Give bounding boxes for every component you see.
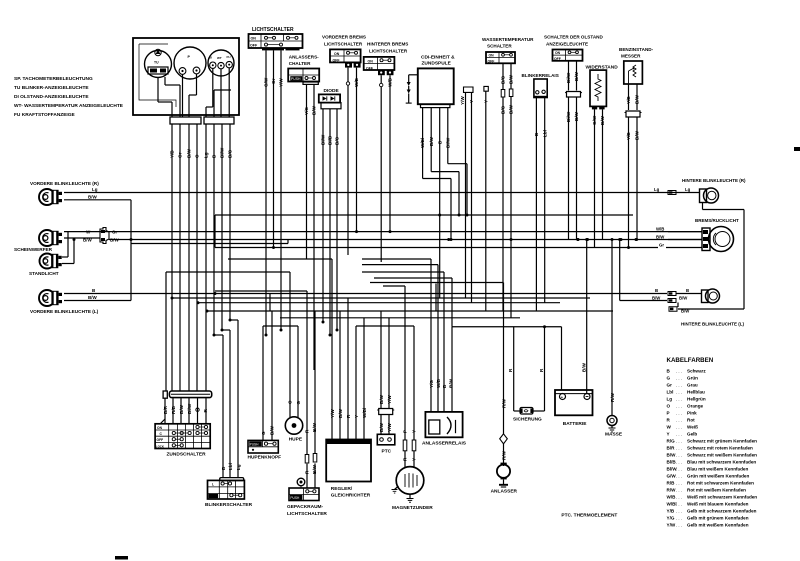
svg-text:B/W: B/W [635, 94, 640, 104]
wire drops from instrument cluster [172, 124, 238, 478]
svg-text:PTC. THERMOELEMENT: PTC. THERMOELEMENT [561, 513, 617, 519]
svg-text:Lg: Lg [204, 152, 209, 158]
svg-text:KABELFARBEN: KABELFARBEN [667, 357, 714, 364]
wire W/B from hinterer Bremslichtschalter [388, 75, 393, 233]
battery BATTERIE [555, 240, 593, 428]
svg-text:B/G: B/G [501, 75, 506, 84]
svg-text:B: B [686, 288, 689, 293]
svg-text:ON: ON [368, 60, 374, 64]
thermo element PTC [377, 311, 395, 455]
svg-text:Rot: Rot [687, 418, 695, 423]
svg-text:BATTERIE: BATTERIE [563, 421, 587, 427]
svg-text:OFF: OFF [554, 57, 561, 61]
svg-text:Bl/B: Bl/B [328, 135, 333, 145]
svg-text:B/W: B/W [656, 234, 665, 239]
switch WASSERTEMPERATUR SCHALTER [482, 37, 534, 63]
svg-text:O: O [195, 154, 200, 158]
svg-text:Weiß: Weiß [687, 425, 698, 430]
svg-text:Weiß mit blauem Kennfaden: Weiß mit blauem Kennfaden [687, 502, 749, 507]
svg-text:Y/G: Y/G [667, 516, 675, 521]
spark plug lead and gap [406, 75, 418, 103]
svg-text:VORDERER BREMS: VORDERER BREMS [322, 35, 366, 40]
headlamp connector W/Gr [83, 228, 120, 244]
wire B/W front left blinker [64, 295, 131, 301]
svg-text:. . .: . . . [676, 523, 682, 528]
svg-text:G/W: G/W [592, 115, 597, 125]
wire Gr from Lichtschalter [271, 50, 276, 249]
svg-text:Lbl: Lbl [667, 390, 674, 395]
svg-text:Y/B: Y/B [626, 132, 631, 140]
svg-text:. . .: . . . [676, 390, 682, 395]
svg-text:LICHTSCHALTER: LICHTSCHALTER [287, 511, 327, 517]
svg-text:Hellblau: Hellblau [687, 390, 705, 395]
svg-text:SCHALTER DER OLSTAND: SCHALTER DER OLSTAND [544, 35, 603, 40]
svg-text:B/W: B/W [312, 464, 317, 474]
svg-text:BLINKERRELAIS: BLINKERRELAIS [522, 73, 559, 78]
svg-text:G/W: G/W [264, 77, 269, 87]
svg-text:R/B: R/B [667, 481, 676, 486]
svg-text:TU BLINKER-ANZEIGELEUCHTE: TU BLINKER-ANZEIGELEUCHTE [14, 85, 89, 91]
wire Y with plug [484, 86, 489, 311]
svg-text:B/W: B/W [88, 195, 98, 200]
svg-text:SCHEINWERFER: SCHEINWERFER [14, 247, 53, 252]
svg-text:. . .: . . . [676, 418, 682, 423]
svg-text:PUSH: PUSH [291, 77, 301, 81]
wire mesh vertical runs [166, 164, 562, 411]
svg-text:Orange: Orange [687, 404, 704, 409]
svg-text:LICHTSCHALTER: LICHTSCHALTER [369, 49, 408, 54]
wires B/G and B/W from Wassertemperaturschalter [501, 63, 514, 317]
svg-text:Hellgrün: Hellgrün [687, 397, 706, 402]
svg-text:W/B: W/B [667, 495, 677, 500]
svg-text:CHALTER: CHALTER [289, 61, 311, 66]
svg-text:B/W: B/W [574, 111, 579, 121]
switch VORDERER BREMSLICHTSCHALTER [322, 35, 366, 68]
svg-text:LICHTSCHALTER: LICHTSCHALTER [324, 42, 363, 47]
lamp SCHEINWERFER [14, 230, 62, 252]
wire Y/G from Anlasserschalter [304, 84, 309, 259]
wires G/W B/W from Widerstand [592, 109, 605, 247]
svg-text:Schwarz: Schwarz [687, 369, 706, 374]
svg-text:. . .: . . . [676, 481, 682, 486]
svg-text:DI: DI [209, 56, 212, 60]
switch HINTERER BREMSLICHTSCHALTER [364, 42, 409, 76]
svg-text:B/W: B/W [582, 362, 587, 372]
wire labels above ignition switch [160, 398, 208, 424]
wires from diode [321, 109, 340, 335]
svg-text:ZUNDSPULE: ZUNDSPULE [422, 61, 452, 67]
svg-text:B/W: B/W [429, 136, 434, 146]
fuel gauge sender BENZINSTANDMESSER [619, 47, 654, 84]
svg-text:Rot mit weißem Kennfaden: Rot mit weißem Kennfaden [687, 488, 746, 493]
svg-text:Blau mit weißem Kennfaden: Blau mit weißem Kennfaden [687, 467, 748, 472]
svg-text:. . .: . . . [676, 376, 682, 381]
svg-text:B/G: B/G [228, 149, 233, 158]
ground at magnetzunder left [392, 486, 399, 493]
svg-text:MAGNETZUNDER: MAGNETZUNDER [392, 505, 433, 511]
svg-text:BLINKERSCHALTER: BLINKERSCHALTER [205, 502, 253, 508]
svg-text:PUSH: PUSH [250, 442, 260, 446]
svg-text:OFF: OFF [366, 67, 374, 71]
switch GEPACKRAUM-LICHTSCHALTER [287, 291, 327, 517]
wire B/W bus [109, 238, 702, 241]
svg-text:Gelb: Gelb [687, 432, 697, 437]
horn HUPE [285, 272, 303, 443]
svg-text:. . .: . . . [676, 460, 682, 465]
svg-text:+: + [561, 395, 563, 399]
svg-text:B/G: B/G [335, 136, 340, 145]
svg-text:Bl/W: Bl/W [220, 147, 225, 158]
wire Lg to front right blinker [64, 187, 700, 193]
svg-text:Pink: Pink [687, 411, 697, 416]
svg-text:MESSER: MESSER [621, 54, 641, 59]
wire labels below cluster [170, 147, 233, 158]
ground MASSE [605, 240, 623, 438]
svg-text:GEPACKRAUM-: GEPACKRAUM- [287, 504, 324, 510]
svg-text:ON: ON [489, 54, 495, 58]
wire B rear left [270, 288, 702, 296]
svg-text:. . .: . . . [676, 397, 682, 402]
generator MAGNETZUNDER [392, 286, 433, 511]
svg-text:BREMS/RUCKLICHT: BREMS/RUCKLICHT [695, 218, 739, 223]
relay BLINKERRELAIS [522, 73, 559, 98]
lamp VORDERE BLINKLEUCHTE (R) [30, 181, 99, 205]
switch LICHTSCHALTER [249, 27, 303, 50]
svg-text:ZUNDSCHALTER: ZUNDSCHALTER [167, 452, 207, 458]
svg-text:O: O [667, 404, 671, 409]
svg-text:DIODE: DIODE [324, 88, 340, 94]
svg-text:P: P [667, 411, 670, 416]
svg-text:SCHALTER: SCHALTER [487, 44, 512, 49]
svg-text:. . .: . . . [676, 467, 682, 472]
svg-text:ON: ON [334, 52, 340, 56]
svg-text:HINTERE BLINKLEUCHTE (R): HINTERE BLINKLEUCHTE (R) [682, 178, 746, 183]
svg-text:Y/G: Y/G [304, 107, 309, 115]
svg-text:Grün: Grün [687, 376, 698, 381]
svg-text:FU KRAFTSTOFFANZEIGE: FU KRAFTSTOFFANZEIGE [14, 112, 75, 118]
switch table ZUNDSCHALTER [155, 424, 210, 458]
wire G/W from Lichtschalter [264, 50, 269, 335]
svg-text:Y/W: Y/W [460, 96, 465, 105]
svg-text:Bl/W: Bl/W [445, 137, 450, 148]
svg-text:B/W: B/W [681, 309, 690, 314]
svg-text:B/W: B/W [509, 104, 514, 114]
svg-text:B/W: B/W [652, 295, 661, 300]
svg-text:B/W: B/W [635, 130, 640, 140]
svg-text:Gr: Gr [667, 383, 673, 388]
legend text SP/TU/DI/WT/FU [14, 76, 124, 118]
diode block DIODE [319, 88, 341, 109]
svg-text:. . .: . . . [676, 383, 682, 388]
svg-text:B: B [655, 288, 658, 293]
svg-text:ON: ON [251, 37, 257, 41]
svg-text:Lg: Lg [92, 187, 98, 192]
CDI unit CDI-EINHEIT & ZUNDSPULE [418, 55, 455, 108]
svg-text:LICHTSCHALTER: LICHTSCHALTER [252, 27, 294, 33]
svg-text:Bl/W: Bl/W [566, 72, 571, 83]
svg-text:Y/B: Y/B [170, 150, 175, 158]
svg-text:ANLASSERS-: ANLASSERS- [289, 55, 319, 60]
svg-text:. . .: . . . [676, 474, 682, 479]
svg-text:ANZEIGELEUCHTE: ANZEIGELEUCHTE [546, 42, 588, 47]
svg-text:Schwarz mit grünem Kennfaden: Schwarz mit grünem Kennfaden [687, 439, 757, 444]
legend KABELFARBEN [667, 357, 758, 528]
svg-text:Y/B: Y/B [667, 509, 675, 514]
svg-text:R/G: R/G [667, 439, 676, 444]
svg-text:Y/B: Y/B [626, 96, 631, 104]
svg-text:BENZINSTAND-: BENZINSTAND- [619, 47, 654, 52]
lamp VORDERE BLINKLEUCHTE (L) [30, 290, 99, 314]
svg-text:Y/W: Y/W [667, 523, 676, 528]
svg-text:Grau: Grau [687, 383, 698, 388]
svg-text:. . .: . . . [676, 509, 682, 514]
svg-text:. . .: . . . [676, 446, 682, 451]
svg-text:W/Bl: W/Bl [420, 138, 425, 148]
lamp HINTERE BLINKLEUCHTE (L) [681, 289, 744, 327]
svg-text:Lbl: Lbl [542, 130, 547, 137]
svg-text:STANDLICHT: STANDLICHT [29, 271, 59, 276]
gauge unit DI / WT / FU [208, 50, 234, 76]
svg-text:G: G [667, 376, 671, 381]
svg-text:HINTERE BLINKLEUCHTE (L): HINTERE BLINKLEUCHTE (L) [681, 322, 744, 327]
ignition switch connector bar [163, 391, 212, 398]
svg-text:W/B: W/B [354, 77, 359, 87]
svg-text:W/B: W/B [656, 226, 664, 231]
svg-text:B/W: B/W [509, 74, 514, 84]
svg-text:OFF: OFF [157, 438, 164, 442]
svg-text:B/W: B/W [574, 71, 579, 81]
svg-text:B/W: B/W [679, 295, 688, 300]
svg-text:Lg: Lg [654, 187, 660, 192]
svg-text:B/W: B/W [312, 105, 317, 115]
cluster connector (right) [204, 117, 234, 124]
svg-text:ON: ON [157, 426, 163, 430]
resistor WIDERSTAND [586, 65, 619, 110]
svg-text:OFF: OFF [250, 44, 258, 48]
cluster connector (left) [170, 117, 201, 124]
instrument cluster (Tacho-Einheit) [133, 38, 239, 115]
svg-text:. . .: . . . [676, 404, 682, 409]
relay ANLASSERRELAIS [422, 259, 467, 446]
wire B front left blinker [64, 288, 270, 295]
svg-text:SICHERUNG: SICHERUNG [513, 417, 542, 423]
svg-text:Y: Y [667, 432, 670, 437]
svg-text:. . .: . . . [676, 495, 682, 500]
svg-text:Gelb mit schwarzem Kennfaden: Gelb mit schwarzem Kennfaden [687, 509, 757, 514]
svg-text:Gr: Gr [271, 78, 276, 84]
svg-text:PUSH: PUSH [290, 496, 300, 500]
switch HUPENKNOPF [248, 311, 282, 461]
svg-text:FU: FU [227, 55, 231, 59]
svg-text:HUPENKNOPF: HUPENKNOPF [248, 455, 282, 461]
svg-text:DI OLSTAND-ANZEIGELEUCHTE: DI OLSTAND-ANZEIGELEUCHTE [14, 94, 89, 100]
lamp BREMS/RUCKLICHT [695, 218, 739, 252]
svg-text:Bl/W: Bl/W [566, 111, 571, 122]
indicator lamp TU (Blinker-Anzeige) [145, 49, 172, 77]
svg-text:REGLER/: REGLER/ [331, 486, 353, 492]
svg-text:Schwarz mit rotem Kennfaden: Schwarz mit rotem Kennfaden [687, 446, 753, 451]
svg-text:B/G: B/G [501, 105, 506, 114]
svg-text:LOCK: LOCK [156, 444, 165, 448]
wires from Blinkerrelais [534, 98, 547, 311]
regulator REGLER/GLEICHRICHTER [326, 259, 371, 499]
svg-text:Lg: Lg [667, 397, 673, 402]
svg-text:OFF: OFF [333, 59, 341, 63]
wire standlicht taps [62, 232, 76, 264]
wires Y/B B/W from Benzinstandmesser with connector [625, 84, 642, 248]
svg-text:. . .: . . . [676, 516, 682, 521]
starter motor ANLASSER [491, 283, 518, 495]
svg-text:. . .: . . . [676, 453, 682, 458]
wire O from hinterer Bremslichtschalter [380, 75, 383, 262]
wire B/W rear return junction [669, 303, 744, 314]
svg-text:. . .: . . . [676, 502, 682, 507]
svg-text:Gr: Gr [659, 242, 664, 247]
wire mesh junction dots [171, 214, 639, 337]
svg-text:B/W: B/W [600, 115, 605, 125]
wire rear right blinker return [703, 203, 745, 310]
svg-text:Blau mit schwarzem Kennfaden: Blau mit schwarzem Kennfaden [687, 460, 756, 465]
wire B/W from Anlasserschalter [312, 84, 317, 370]
svg-text:. . .: . . . [676, 411, 682, 416]
svg-text:. . .: . . . [676, 432, 682, 437]
svg-text:L: L [212, 482, 214, 486]
switch SCHALTER DER OLSTAND ANZEIGELEUCHTE [544, 35, 603, 61]
svg-text:. . .: . . . [676, 488, 682, 493]
wire W/B from vorderer Bremslichtschalter [354, 68, 359, 234]
svg-text:W/B: W/B [388, 77, 393, 87]
svg-text:Bl/B: Bl/B [667, 460, 677, 465]
wire W/B bus (headlamp to rear) [64, 232, 702, 238]
svg-text:Weiß mit schwarzem Kennfaden: Weiß mit schwarzem Kennfaden [687, 495, 757, 500]
svg-text:Y/W: Y/W [279, 78, 284, 87]
svg-text:Gelb mit weißem Kennfaden: Gelb mit weißem Kennfaden [687, 523, 749, 528]
svg-text:ANLASSERRELAIS: ANLASSERRELAIS [422, 440, 467, 446]
svg-text:W: W [667, 425, 672, 430]
wires Bl/W B/W from Olstand switch with connector [565, 61, 582, 240]
lamp HINTERE BLINKLEUCHTE (R) [654, 178, 746, 203]
wire Y/W from Lichtschalter [279, 50, 284, 330]
wire B/W rear left [620, 240, 689, 303]
wire B/W front right blinker [64, 195, 131, 301]
svg-text:B/W: B/W [88, 295, 98, 300]
svg-text:ON: ON [555, 51, 561, 55]
svg-text:VORDERE BLINKLEUCHTE (R): VORDERE BLINKLEUCHTE (R) [30, 181, 99, 186]
svg-text:. . .: . . . [676, 425, 682, 430]
fuse SICHERUNG [508, 368, 544, 423]
wire O from vorderer Bremslichtschalter [346, 68, 349, 255]
scan mark bottom edge [115, 556, 128, 560]
lamp STANDLICHT [29, 254, 62, 277]
svg-text:TU: TU [154, 61, 159, 65]
svg-text:B/W: B/W [667, 453, 677, 458]
wire tap hupenknopf [0, 0, 1, 1]
svg-text:WT- WASSERTEMPERATUR ANZEIGELE: WT- WASSERTEMPERATUR ANZEIGELEUCHTE [14, 103, 124, 109]
svg-text:Rot mit schwarzem Kennfaden: Rot mit schwarzem Kennfaden [687, 481, 754, 486]
svg-text:CDI-EINHEIT &: CDI-EINHEIT & [421, 55, 455, 61]
wire mesh horizontal runs [131, 164, 633, 327]
wire labels to brake/tail lamp [656, 226, 702, 247]
speedometer P [174, 47, 206, 79]
svg-text:. . .: . . . [676, 369, 682, 374]
svg-text:Gr: Gr [178, 152, 183, 158]
svg-text:HINTERER BREMS: HINTERER BREMS [367, 42, 408, 47]
svg-text:R/W: R/W [667, 488, 677, 493]
wires from CDI unit [420, 108, 450, 298]
svg-text:HUPE: HUPE [289, 437, 303, 443]
svg-text:MASSE: MASSE [605, 432, 623, 438]
svg-text:Bl/W: Bl/W [321, 134, 326, 145]
svg-text:GLEICHRICHTER: GLEICHRICHTER [331, 493, 371, 499]
svg-text:SP. TACHOMETERBELEUCHTUNG: SP. TACHOMETERBELEUCHTUNG [14, 76, 93, 82]
scan mark right edge [794, 147, 800, 151]
svg-text:OFF: OFF [488, 59, 495, 63]
svg-text:B/R: B/R [667, 446, 676, 451]
svg-text:. . .: . . . [676, 439, 682, 444]
switch table BLINKERSCHALTER [205, 463, 253, 508]
switch ANLASSERSCHALTER [288, 55, 319, 85]
svg-text:Lbl: Lbl [228, 463, 233, 470]
wire Gr bus [215, 215, 658, 248]
svg-text:ANLASSER: ANLASSER [491, 489, 518, 495]
svg-text:Schwarz mit weißem Kennfaden: Schwarz mit weißem Kennfaden [687, 453, 757, 458]
svg-text:Grün mit weißem Kennfaden: Grün mit weißem Kennfaden [687, 474, 749, 479]
svg-text:PTC: PTC [382, 449, 392, 455]
wire pair Y/W and Y with connector [460, 87, 474, 303]
svg-text:Lg: Lg [685, 187, 691, 192]
svg-text:WASSERTEMPERATUR: WASSERTEMPERATUR [482, 37, 534, 42]
svg-text:B/W: B/W [187, 148, 192, 158]
svg-text:Gelb mit grünem Kennfaden: Gelb mit grünem Kennfaden [687, 516, 749, 521]
svg-text:G/W: G/W [667, 474, 677, 479]
svg-text:VORDERE BLINKLEUCHTE (L): VORDERE BLINKLEUCHTE (L) [30, 309, 99, 314]
cluster internal wires [158, 68, 231, 117]
svg-text:WT: WT [217, 56, 222, 60]
svg-text:Lg: Lg [236, 464, 241, 470]
